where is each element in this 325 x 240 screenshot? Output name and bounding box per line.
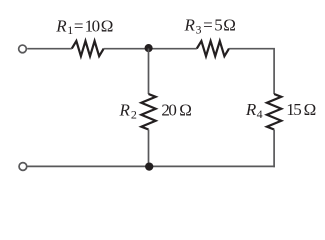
node: bottom junction dot [145,162,153,170]
label R1 = 10 ohm [55,16,113,37]
svg-text:Ω: Ω [304,100,317,119]
svg-text:=: = [74,16,84,35]
wire: R1 to R3 through top node [104,48,197,50]
svg-text:Ω: Ω [223,15,236,34]
svg-text:Ω: Ω [179,100,192,119]
wire: top-left terminal to R1 [27,48,72,50]
wire: R2 to bottom node [148,130,150,167]
label R2 [119,100,137,121]
svg-text:15: 15 [286,100,301,119]
resistor R3 (zigzag) [197,41,229,56]
wire: R3 to top-right corner then down to R4 [229,49,274,94]
svg-text:10: 10 [85,16,100,35]
svg-text:5: 5 [214,15,223,34]
svg-text:R: R [245,100,257,119]
resistor R4 (vertical zigzag) [267,94,281,130]
svg-text:Ω: Ω [101,16,114,35]
label R3 = 5 ohm [184,15,236,36]
svg-text:R: R [184,15,196,34]
wire: R4 to bottom-right corner [273,130,275,168]
node: top junction dot [145,44,153,52]
svg-text:4: 4 [257,107,263,121]
svg-text:20: 20 [161,100,176,119]
wire: middle vertical, top node down to R2 [148,49,150,95]
svg-text:3: 3 [196,22,202,36]
resistor R2 (vertical zigzag) [141,94,155,130]
wire: bottom rail [27,165,275,167]
svg-text:R: R [119,100,131,119]
svg-text:1: 1 [67,23,73,37]
resistor R1 (zigzag) [72,41,104,56]
svg-text:2: 2 [131,107,137,121]
label 20 ohm [161,100,192,119]
terminal: top-left open circle [19,45,27,53]
label R4 [245,100,263,121]
svg-text:=: = [203,15,213,34]
svg-text:R: R [55,16,67,35]
label 15 ohm [286,100,316,119]
terminal: bottom-left open circle [19,163,27,171]
